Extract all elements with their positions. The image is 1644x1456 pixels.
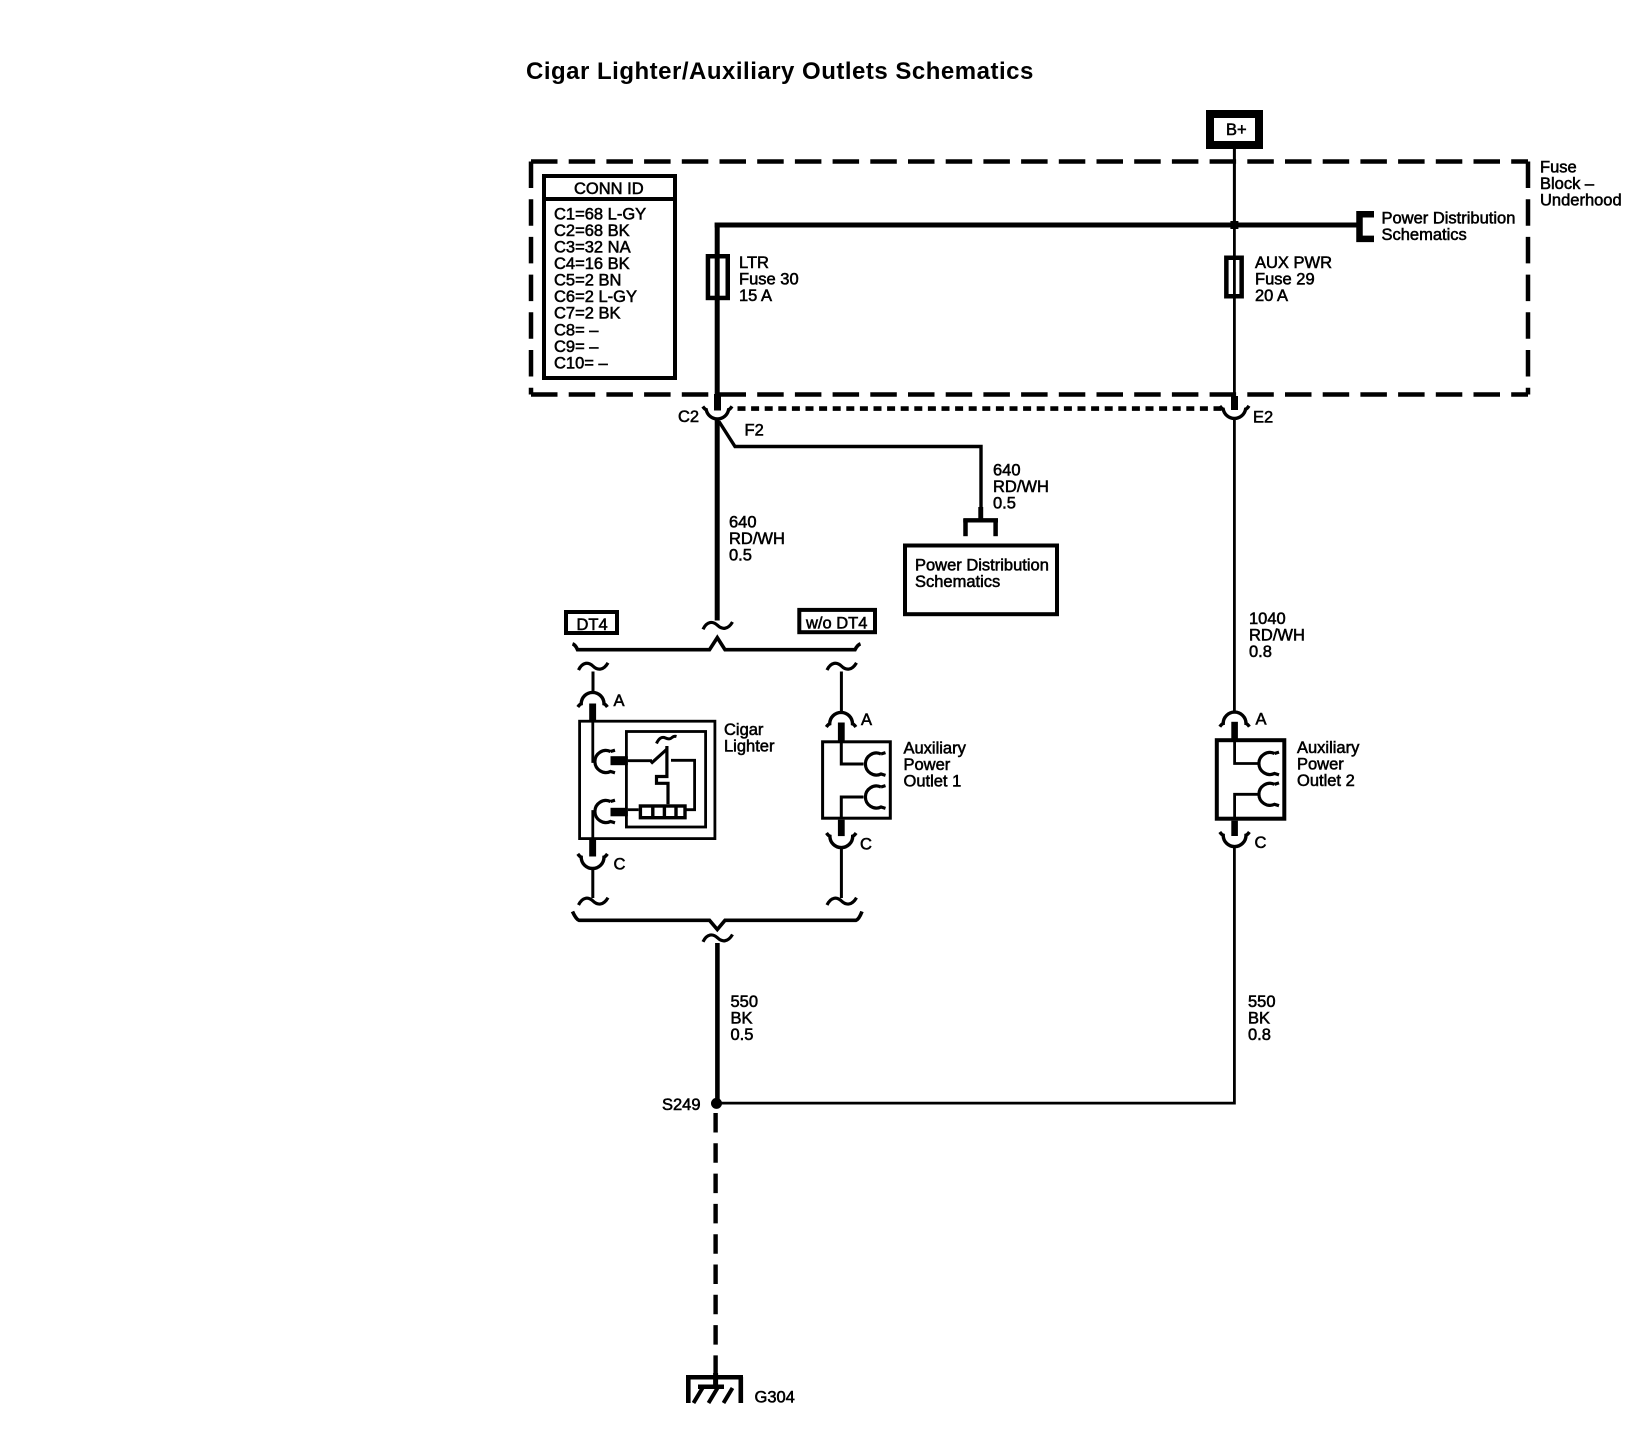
svg-text:Outlet 2: Outlet 2 [1297,772,1355,790]
cigar lighter inner box [626,732,705,828]
svg-text:C: C [614,855,626,873]
connector C arc (outlet 1) [827,833,857,848]
svg-text:640: 640 [729,513,757,531]
wire break middle branch bottom [827,898,857,905]
connector E2 arc [1220,406,1249,419]
svg-text:15 A: 15 A [739,287,772,305]
svg-text:0.5: 0.5 [993,494,1016,512]
wire left drop below C2 [715,420,720,621]
pin stub C (outlet 2) [1231,821,1238,836]
svg-text:550: 550 [1248,993,1276,1011]
connector A arc (cigar lighter) [578,692,608,707]
half connector above box [963,507,998,536]
outlet 1 upper terminal arc [865,753,885,776]
pin stub A (outlet 1) [838,723,845,742]
pin stub C (outlet 1) [838,820,845,836]
dotted connector face line [738,406,1225,411]
svg-text:0.5: 0.5 [729,546,752,564]
svg-text:Block –: Block – [1540,175,1595,193]
CONN ID table [542,176,677,378]
wire below C (cigar lighter) [591,869,594,898]
svg-text:A: A [861,711,872,729]
cigar lighter element left lead [628,808,639,811]
connector C2 stub [714,394,721,411]
svg-text:C6=2 L-GY: C6=2 L-GY [554,288,637,306]
svg-text:CONN ID: CONN ID [574,180,644,198]
svg-text:20 A: 20 A [1255,287,1288,305]
svg-text:C1=68 L-GY: C1=68 L-GY [554,205,646,223]
svg-text:0.8: 0.8 [1249,643,1272,661]
svg-text:C2: C2 [678,408,699,426]
svg-text:A: A [1256,710,1267,728]
label Power Distribution Schematics (top right) [1382,209,1516,244]
svg-text:Outlet 1: Outlet 1 [904,772,962,790]
pin stub C (cigar lighter) [589,840,596,857]
dashed wire to ground [713,1113,717,1374]
svg-text:C9= –: C9= – [554,338,599,356]
wire middle branch to A [840,672,843,713]
svg-text:C2=68 BK: C2=68 BK [554,222,630,240]
svg-text:C: C [1255,834,1267,852]
wire right drop through AUX fuse [1233,225,1236,395]
wire left branch to A [592,672,595,694]
junction dot at B+ bus [1230,221,1238,229]
cigar lighter thermal contact hook [657,736,677,743]
aux power outlet 1 box [823,742,891,818]
svg-text:E2: E2 [1253,408,1273,426]
aux power outlet 2 box [1217,740,1285,819]
svg-text:Underhood: Underhood [1540,191,1622,209]
box Power Distribution Schematics [905,546,1057,615]
svg-text:0.5: 0.5 [731,1026,754,1044]
wire F2 branch to power distribution [719,422,981,520]
fuse AUX PWR Fuse 29 [1226,254,1332,305]
outlet 2 lower terminal arc [1259,783,1279,806]
svg-text:B+: B+ [1226,121,1247,139]
svg-text:550: 550 [731,993,759,1011]
svg-text:LTR: LTR [739,254,769,272]
cigar lighter heating element [640,806,685,818]
cigar lighter switch blade [651,750,667,764]
svg-text:Power: Power [1297,755,1344,773]
outlet 1 upper contact wire [841,742,863,764]
outlet 2 lower contact wire [1235,794,1259,820]
wire break middle branch top [827,663,857,670]
svg-text:Schematics: Schematics [1382,226,1467,244]
outlet 2 upper terminal arc [1259,752,1279,775]
wire below C (outlet 1) [840,848,843,898]
cigar lighter switch wire [628,759,652,762]
box w/o DT4 [799,610,875,633]
ground symbol G304 [686,1373,743,1403]
svg-text:BK: BK [731,1009,753,1027]
svg-text:Fuse 30: Fuse 30 [739,271,799,289]
wire break top center [703,622,733,629]
connector A arc (outlet 1) [826,712,856,727]
svg-text:Power: Power [904,756,951,774]
svg-text:RD/WH: RD/WH [729,530,785,548]
svg-text:Power Distribution: Power Distribution [915,556,1049,574]
fuse LTR Fuse 30 [708,254,799,305]
label 550 BK 0.8 [1248,993,1276,1044]
label 550 BK 0.5 [731,993,759,1044]
svg-text:C4=16 BK: C4=16 BK [554,255,630,273]
svg-text:Fuse: Fuse [1540,158,1577,176]
svg-text:S249: S249 [662,1096,701,1114]
svg-text:BK: BK [1248,1009,1270,1027]
svg-text:Schematics: Schematics [915,573,1000,591]
fuse block underhood dashed box [531,162,1528,395]
wire main bus horizontal [715,223,1357,228]
B+ battery feed symbol [1210,114,1259,145]
svg-text:F2: F2 [745,421,764,439]
connector E2 stub [1231,396,1238,410]
svg-text:C7=2 BK: C7=2 BK [554,305,621,323]
pin stub A (outlet 2) [1231,722,1238,741]
brace merge bottom [573,912,863,930]
connector C arc (cigar lighter) [578,854,608,869]
outlet 1 lower contact wire [841,797,863,819]
connector A arc (outlet 2) [1220,712,1250,727]
connector C arc (outlet 2) [1220,832,1250,847]
wire break left branch top [579,663,609,670]
outlet 2 upper contact wire [1235,741,1259,764]
svg-text:w/o DT4: w/o DT4 [805,614,867,632]
label 640 RD/WH 0.5 (left) [729,513,785,564]
svg-text:0.8: 0.8 [1248,1026,1271,1044]
svg-text:C10= –: C10= – [554,354,608,372]
off-page bracket to Power Distribution [1360,214,1375,239]
splice S249 dot [711,1098,722,1109]
cigar lighter pin bar bottom [611,808,628,817]
svg-text:640: 640 [993,461,1021,479]
svg-text:C5=2 BN: C5=2 BN [554,272,621,290]
label 640 RD/WH 0.5 (branch) [993,461,1049,512]
cigar lighter bimetal link [657,746,669,804]
wire ground drop [715,943,720,1103]
svg-text:G304: G304 [755,1388,795,1406]
svg-text:RD/WH: RD/WH [993,478,1049,496]
wire break left branch bottom [579,898,609,905]
svg-text:C8= –: C8= – [554,321,599,339]
svg-text:RD/WH: RD/WH [1249,626,1305,644]
cigar lighter pin C internal wire [593,812,595,840]
svg-text:Cigar Lighter/Auxiliary Outlet: Cigar Lighter/Auxiliary Outlets Schemati… [526,58,1034,85]
wire left drop through LTR fuse [715,223,720,396]
svg-text:Auxiliary: Auxiliary [1297,739,1360,757]
wire outlet 2 to splice [717,848,1235,1104]
svg-text:DT4: DT4 [577,616,608,634]
label Auxiliary Power Outlet 1 [904,739,967,790]
label 1040 RD/WH 0.8 [1249,610,1305,661]
svg-text:C3=32 NA: C3=32 NA [554,239,631,257]
cigar lighter outer box [580,721,715,838]
wire B+ to bus [1233,148,1236,225]
wire right drop below E2 [1233,420,1236,712]
svg-text:A: A [614,692,625,710]
cigar lighter pin A internal wire [593,721,595,762]
wire break below merge [703,935,733,942]
cigar lighter terminal arc top [595,750,615,773]
cigar lighter element right lead [671,760,695,809]
label Cigar Lighter [724,721,775,756]
pin stub A (cigar lighter) [589,704,596,722]
box DT4 [566,612,617,634]
connector C2 arc [703,406,732,419]
svg-text:Cigar: Cigar [724,721,764,739]
outlet 1 lower terminal arc [865,786,885,809]
svg-text:Fuse 29: Fuse 29 [1255,271,1315,289]
svg-text:Auxiliary: Auxiliary [904,739,967,757]
svg-text:AUX PWR: AUX PWR [1255,254,1332,272]
label Auxiliary Power Outlet 2 [1297,739,1360,790]
brace split top [573,638,861,650]
svg-text:1040: 1040 [1249,610,1286,628]
label Fuse Block - Underhood [1540,158,1622,209]
svg-text:C: C [860,835,872,853]
svg-text:Lighter: Lighter [724,737,775,755]
cigar lighter terminal arc bottom [595,800,615,823]
svg-text:Power Distribution: Power Distribution [1382,209,1516,227]
cigar lighter pin bar top [611,756,628,765]
